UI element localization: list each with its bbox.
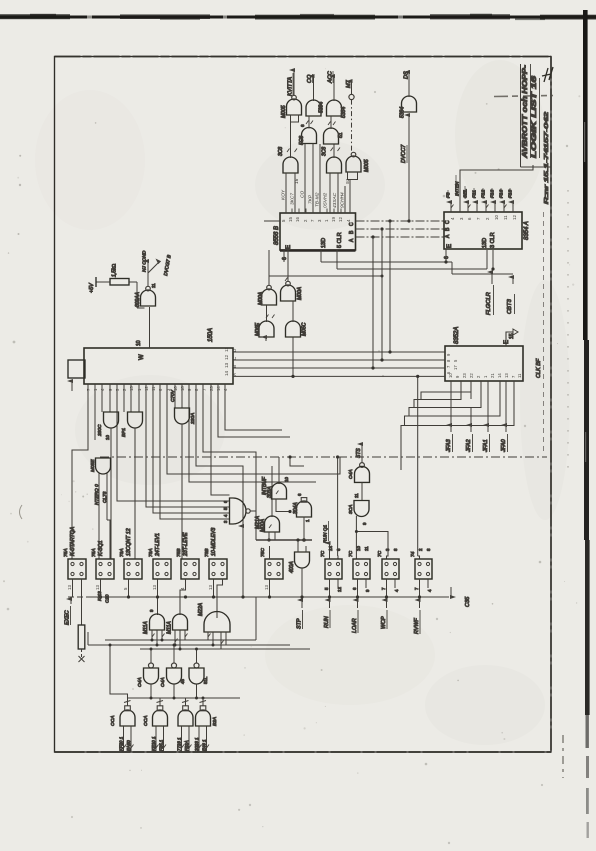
svg-text:M11A: M11A [167,621,173,634]
svg-text:21: 21 [490,373,495,378]
svg-text:M22A: M22A [198,602,204,616]
svg-text:E: E [447,244,453,248]
svg-text:SEL: SEL [463,189,469,198]
svg-text:10: 10 [136,340,142,346]
svg-text:19: 19 [331,217,336,222]
svg-text:INTEN: INTEN [455,181,461,196]
svg-text:230C: 230C [97,424,103,437]
svg-text:F16: F16 [499,189,505,198]
nand gate GE 230C [97,412,119,559]
flipflop FF3 73A [119,528,142,597]
svg-text:EA50: EA50 [126,740,131,751]
svg-text:NJ COND: NJ COND [142,250,148,272]
svg-text:IC13: IC13 [97,591,102,601]
and gate G2 [306,74,325,116]
stray dashed vertical right margin [567,190,569,468]
and gate GC M06E [255,305,274,341]
signal arrow JFA1 [483,381,490,453]
svg-text:7C: 7C [348,550,354,557]
svg-text:10-MDLEV3: 10-MDLEV3 [211,528,217,556]
svg-text:6: 6 [444,256,450,259]
svg-text:13: 13 [504,373,509,378]
svg-text:12: 12 [224,354,229,360]
nand gate GF BP1 [121,412,143,559]
svg-text:KF20 1: KF20 1 [119,736,124,751]
nand gate M21A 4-input [223,498,261,540]
svg-text:308A: 308A [267,486,273,498]
nand gate G9 M005 [346,152,370,179]
nand gate O4A-2 [160,663,185,698]
wire labels above U1 [281,178,352,208]
nand gate OCA-3 [177,698,194,752]
svg-text:220A: 220A [190,413,196,425]
svg-text:73B: 73B [204,548,210,557]
svg-text:0SVH2: 0SVH2 [323,192,329,208]
svg-text:12: 12 [512,215,517,220]
bus U1 to U2 line B [356,227,445,230]
bus to start-stop flipflops [256,539,312,541]
svg-text:RVWF: RVWF [414,618,420,634]
svg-text:JFA0: JFA0 [501,438,507,453]
MAIN SCHEMATIC CONTENT [63,64,553,752]
title block [520,64,553,455]
U2 INTEN wire [455,165,534,212]
svg-text:7723 1: 7723 1 [177,737,182,751]
signal STP [297,600,303,629]
svg-text:11: 11 [364,546,369,551]
svg-text:7KP: 7KP [308,194,314,204]
svg-text:16: 16 [294,178,300,184]
nand gate O4A-1 [137,663,159,698]
svg-text:EXEC: EXEC [65,610,71,625]
svg-text:LOGIK LIST 16: LOGIK LIST 16 [529,75,538,158]
wire lattice below U3 [72,384,340,597]
right scan edge bar [583,10,590,838]
svg-text:O4A: O4A [137,677,143,687]
U4 bottom nested wires [272,375,514,559]
gate buses [88,597,310,663]
svg-text:11: 11 [503,215,508,220]
U3 right side letters [224,347,237,376]
signal RUN [324,600,330,628]
svg-text:CBT3: CBT3 [507,298,513,314]
svg-text:10: 10 [356,546,361,551]
nand gate G1 M005 [281,70,302,122]
svg-text:5C8: 5C8 [299,136,305,145]
svg-text:K-SQ1: K-SQ1 [98,540,104,556]
bottom rail line [68,587,471,607]
pin numbers U2 top [450,215,517,220]
nand gate 809AA [135,250,173,348]
svg-text:CO: CO [300,191,306,198]
pin labels under left flipflops [67,585,269,590]
signal arrow JFA0 [501,381,508,453]
svg-text:12: 12 [337,587,342,592]
svg-text:45: 45 [180,679,185,684]
svg-text:B2A: B2A [212,717,218,726]
svg-text:M00A: M00A [258,291,264,305]
U2 top arrow SEL [463,186,469,212]
svg-text:E46 1: E46 1 [202,739,207,751]
svg-text:7C: 7C [377,550,383,557]
signal arrow CBT3 [507,277,515,314]
IC U3 50A long register [84,328,237,391]
svg-text:2023 1: 2023 1 [194,737,199,752]
svg-text:51: 51 [338,132,344,138]
svg-text:809AA: 809AA [135,291,141,307]
svg-text:F8: F8 [446,192,452,198]
U2 top arrow F13 [490,188,496,212]
svg-text:3KC7: 3KC7 [290,193,296,205]
U4 E output flag [506,332,513,346]
bus U1 to U2 line A [356,235,445,238]
svg-text:5384: 5384 [400,107,406,118]
svg-text:M005: M005 [281,105,287,118]
signal arrow JFA3 [446,381,453,453]
U1 bottom pin wires to U2 [321,249,513,274]
svg-text:+5V: +5V [89,282,95,293]
signal arrow RUN Q1 [323,521,330,559]
nand gate OCA-4 B2A [194,698,218,752]
flipflop FF4 73A [148,533,171,615]
svg-text:CL73: CL73 [102,491,108,503]
and gate 308A [267,477,292,514]
flipflop FF5 75B [176,532,199,615]
svg-text:51: 51 [345,178,351,184]
nand gate GG 220A [170,389,196,559]
svg-text:51L: 51L [203,676,208,684]
svg-text:10: 10 [448,373,453,378]
U2 top arrow F11 [472,188,478,212]
svg-text:5 CLR: 5 CLR [337,232,343,248]
svg-text:75A: 75A [91,548,97,557]
svg-text:7C: 7C [320,550,326,557]
svg-text:JFA2: JFA2 [466,438,472,453]
and gate G6 [324,116,345,144]
svg-text:5384: 5384 [319,102,325,113]
and gate M11A-2 [167,614,188,649]
and gate M11A-1 [143,609,165,645]
svg-text:23T-LEVE: 23T-LEVE [183,532,189,557]
svg-text:75B: 75B [176,548,182,557]
svg-text:KOY: KOY [281,189,287,200]
top scan edge bar [0,14,596,20]
flipflop FF10 7C [377,548,399,597]
vertical dashed stub [290,457,304,466]
svg-text:JFA1: JFA1 [483,439,489,453]
svg-text:F25.1: F25.1 [159,739,164,751]
svg-text:10: 10 [494,215,499,220]
svg-text:17: 17 [453,365,458,370]
svg-text:JFA3: JFA3 [446,438,452,453]
pin numbers U4 bottom [448,373,522,378]
svg-text:6: 6 [282,257,288,260]
svg-text:10: 10 [105,435,110,440]
signal arrow JFA2 [466,381,473,453]
svg-text:3C8: 3C8 [322,147,328,156]
svg-text:400A: 400A [289,561,295,573]
nand gate 304A [293,493,312,542]
svg-text:E: E [504,340,510,344]
U2 top arrow F8 [446,190,452,212]
svg-text:11: 11 [224,347,229,352]
svg-text:13: 13 [95,585,100,590]
svg-text:11: 11 [354,493,359,498]
IC U4 8352A [445,327,542,381]
svg-text:R:nr 15.1-74157-042: R:nr 15.1-74157-042 [544,112,550,204]
svg-text:M7: M7 [346,79,352,88]
svg-text:15: 15 [288,217,293,222]
svg-text:150A: 150A [208,328,214,342]
svg-text:M00A: M00A [260,518,266,532]
svg-text:M06E: M06E [255,322,261,336]
svg-text:O4A: O4A [348,469,354,479]
nand gate O4A-3 [189,663,208,698]
U3 bottom pin stubs [88,384,225,389]
flipflop FF7 75C [260,546,283,597]
svg-text:73A: 73A [148,548,154,557]
svg-text:W: W [139,354,145,360]
svg-text:AVBROTT och HOPP-: AVBROTT och HOPP- [520,64,529,159]
svg-text:8354 A: 8354 A [524,221,530,240]
U1 top pin stubs [286,209,350,214]
and gate M22A [198,602,230,649]
svg-text:75A: 75A [63,548,69,557]
and gate G8 [322,145,342,174]
svg-text:NTERQ 0: NTERQ 0 [94,484,100,505]
svg-text:13: 13 [224,362,229,368]
pin numbers U1 top [281,217,351,222]
flipflop FF9 7C [348,546,370,597]
pin tick marks [124,121,507,749]
vertical wires to lower bus [373,221,390,368]
nand gate OCA-2 [143,698,168,752]
and gate G3 [327,70,348,118]
section dash-dot line [100,456,547,458]
svg-text:1,5kΩ: 1,5kΩ [112,264,118,277]
title block bottom line [521,166,552,168]
svg-text:C70V: C70V [170,389,176,402]
svg-text:M00A: M00A [297,286,303,300]
and gate G5 [299,116,317,145]
nand gate 400A [289,538,310,597]
svg-text:8556 B: 8556 B [274,226,280,245]
U2 top arrow F16 [499,188,505,212]
svg-text:O4A: O4A [160,677,166,687]
svg-text:BP1: BP1 [121,428,127,437]
svg-text:M05C: M05C [302,322,308,336]
signal arrow FLGCLR [486,272,494,315]
nand gate GA M00A [258,250,277,305]
svg-text:13CQNT 12: 13CQNT 12 [126,528,132,556]
wires top cluster to U1 [264,144,350,222]
svg-text:13: 13 [152,585,157,590]
flipflop FF11 74 [410,548,432,597]
svg-text:13D: 13D [321,238,327,248]
svg-text:75C: 75C [260,548,266,557]
svg-text:13D: 13D [482,238,488,248]
svg-text:M11A: M11A [143,621,149,634]
svg-text:304A: 304A [293,502,299,514]
resistor R1 1,5k [89,264,145,308]
register bus U3 to U4 [233,350,445,378]
svg-text:RUN: RUN [324,616,330,628]
U2 top arrow F18 [508,188,514,212]
flipflop FF1 75A [63,526,86,597]
svg-text:3 CLR: 3 CLR [490,232,496,248]
svg-text:13: 13 [67,585,72,590]
svg-text:K-STARTQA: K-STARTQA [70,526,76,556]
and gate DS 5384 [400,70,417,221]
faint dashed mark top-right [494,96,553,97]
svg-text:RUN Q1: RUN Q1 [323,525,329,543]
signal LOAR [352,600,358,633]
svg-text:73A: 73A [119,548,125,557]
svg-text:8352A: 8352A [454,327,460,344]
signal WCP [381,600,387,629]
svg-text:F23A: F23A [184,740,189,751]
svg-text:6: 6 [300,124,305,127]
svg-text:13: 13 [264,585,269,590]
connector M7 [346,79,354,153]
and gate G7 [278,122,298,173]
svg-text:22: 22 [469,373,474,378]
IC U1 8556B [274,213,356,260]
nand gate 3CA [348,501,388,560]
title block inner dashed line [543,212,545,455]
svg-text:C35: C35 [465,596,471,607]
svg-text:43SAC: 43SAC [332,192,338,208]
svg-text:STP: STP [297,618,303,629]
svg-text:3CA: 3CA [348,505,354,514]
flipflop FF6 73B [204,528,227,618]
U3 left loop box [68,360,85,391]
nand gate OCA-1 [110,698,135,752]
svg-text:WCP: WCP [381,616,387,629]
wire GA-GB feed [269,275,382,277]
and gate M00A2 [260,516,280,542]
title block left boundary line [520,64,522,167]
signature mark [542,67,553,82]
svg-text:F11: F11 [472,190,478,198]
svg-text:C20: C20 [105,594,110,603]
signal RVWF [414,600,420,634]
svg-text:3C8: 3C8 [278,147,284,156]
svg-text:F18: F18 [508,189,514,198]
svg-text:16: 16 [295,217,300,222]
svg-text:DVCC7: DVCC7 [401,144,407,163]
svg-text:10: 10 [284,477,289,482]
svg-text:23: 23 [462,373,467,378]
svg-text:13: 13 [208,585,213,590]
svg-text:OCA: OCA [110,716,116,726]
svg-text:E: E [286,245,292,249]
svg-text:5384: 5384 [341,107,347,118]
U2 top arrow F12 [481,188,487,212]
svg-text:11: 11 [517,373,522,378]
svg-text:12: 12 [338,217,343,222]
IC U2 8354A [444,212,530,259]
svg-text:OCA: OCA [143,716,149,726]
pin numbers U3 bottom [86,386,228,391]
resistor R2 [78,579,85,662]
svg-text:11: 11 [151,283,156,288]
svg-text:STS: STS [356,448,362,458]
svg-text:14: 14 [224,370,229,376]
drawing frame [55,57,552,753]
bus U1 to U2 line C [356,219,445,222]
svg-text:F13: F13 [490,189,496,198]
svg-text:M005: M005 [364,159,370,172]
svg-text:14: 14 [497,373,502,378]
nand gate GH M05E [90,458,111,559]
svg-text:TB-M2: TB-M2 [315,192,321,207]
nand gate STS O4A [348,444,370,501]
lower bus [109,644,241,700]
svg-text:24T-LEV1: 24T-LEV1 [155,533,161,557]
svg-text:9CHH4: 9CHH4 [340,192,346,208]
svg-text:14: 14 [328,546,333,551]
and gate GD M05C [286,301,308,376]
svg-text:M05E: M05E [90,459,96,472]
svg-text:FLGCLR: FLGCLR [486,291,492,315]
signal EXEC [65,599,72,625]
flipflop FF8 7C [320,546,342,597]
nand gate GB M00A [281,250,304,301]
wire E pin U1 [283,250,285,262]
svg-text:LOAR: LOAR [352,618,358,633]
svg-text:F12: F12 [481,189,487,198]
U4 left inside numbers [446,353,458,374]
flipflop FF2 75A [91,540,114,597]
flipflop row [63,526,432,618]
svg-text:KE10 1: KE10 1 [151,736,156,751]
svg-text:CLK BF: CLK BF [536,358,542,378]
svg-text:74: 74 [410,551,416,557]
